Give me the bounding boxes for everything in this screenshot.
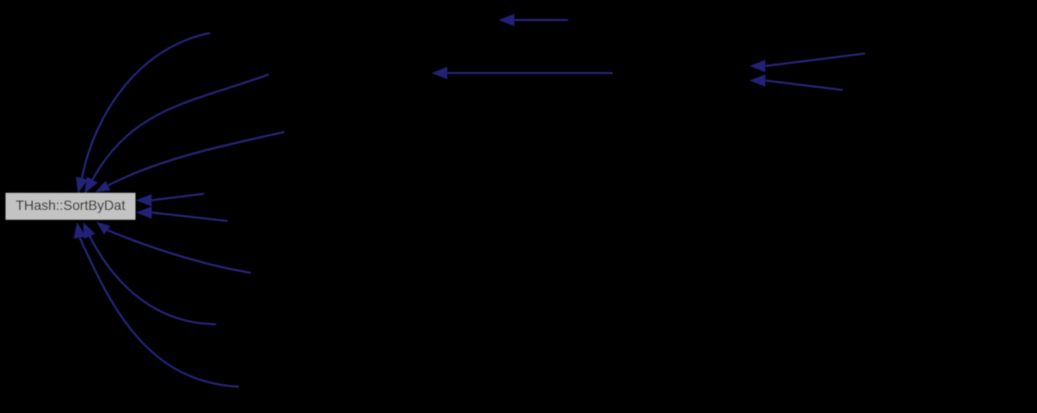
- arrowhead B1: [74, 222, 86, 239]
- arrowhead F3: [750, 60, 766, 72]
- wire B3: [107, 230, 250, 273]
- wire F2: [447, 72, 612, 74]
- arrowhead R2: [136, 206, 152, 218]
- arrowhead T1: [76, 177, 88, 194]
- wire F1: [514, 19, 568, 21]
- arrowhead F1: [499, 14, 515, 26]
- arrowhead B3: [96, 222, 110, 235]
- wire R1: [152, 194, 204, 201]
- wire F4: [765, 81, 842, 91]
- svg-text:THash::SortByDat: THash::SortByDat: [16, 198, 126, 213]
- arrowhead T3: [96, 181, 111, 192]
- node THash::SortByDat: [6, 193, 136, 220]
- arrowhead F4: [750, 74, 766, 86]
- wire T3: [108, 132, 284, 185]
- wire R2: [152, 213, 228, 222]
- wire B1: [80, 238, 239, 387]
- arrowhead R1: [136, 194, 152, 206]
- arrowhead B2: [83, 222, 95, 239]
- arrowhead T2: [85, 177, 98, 194]
- wire T2: [92, 74, 269, 179]
- wire T1: [82, 33, 210, 178]
- wire B2: [90, 236, 216, 324]
- wire F3: [765, 54, 865, 67]
- arrowhead F2: [432, 67, 448, 79]
